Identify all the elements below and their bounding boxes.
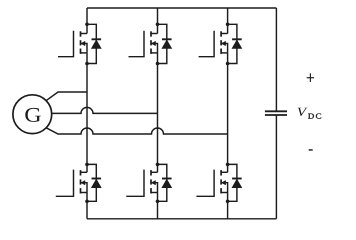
wire: bottom DC bus rail — [87, 218, 276, 220]
junction Q4 source node — [85, 200, 89, 204]
junction Q5 drain node — [156, 163, 160, 167]
wire: D1 branch — [87, 24, 96, 63]
junction Q4 drain node — [85, 163, 89, 167]
diode D4 — [92, 179, 102, 188]
diode D3 — [232, 39, 242, 48]
junction Q2 source node — [156, 62, 160, 66]
transistor Q1 (MOSFET) — [58, 31, 87, 57]
diode D5 — [162, 179, 172, 188]
junction Q6 drain node — [226, 163, 230, 167]
transistor Q3 (MOSFET) — [199, 31, 228, 57]
diode D2 — [162, 39, 172, 48]
wire: leg 1 bottom (Q4 source to bottom rail) — [86, 193, 88, 219]
wire: D4 branch — [87, 164, 96, 201]
junction Q6 source node — [226, 200, 230, 204]
wire: right bus upper segment (top rail to capacitor) — [275, 8, 277, 111]
diode D1 — [92, 39, 102, 48]
junction Q3 drain node — [226, 23, 230, 27]
wire: right bus lower segment (capacitor to bottom rail) — [275, 115, 277, 219]
junction Q1 drain node — [85, 23, 89, 27]
wire: leg 3 midpoint (Q3 source to Q6 drain, phase node) — [227, 53, 229, 172]
generator G (circle symbol) — [13, 95, 52, 134]
transistor Q6 (MOSFET) — [196, 170, 227, 197]
junction Q5 source node — [156, 200, 160, 204]
wire: leg 2 midpoint (Q2 source to Q5 drain, phase node) — [157, 53, 159, 172]
capacitor C1 (DC bus) — [265, 111, 287, 115]
junction Q1 source node — [85, 62, 89, 66]
wire: phase C (generator to leg 3 midpoint, hops over legs 1 and 2) — [46, 128, 227, 134]
wire: leg 2 top (rail to Q2 drain) — [157, 8, 159, 34]
wire: leg 3 bottom (Q6 source to bottom rail) — [227, 193, 229, 219]
wire: leg 1 midpoint (Q1 source to Q4 drain, phase node) — [86, 53, 88, 172]
diode D6 — [232, 179, 242, 188]
wire: D6 branch — [228, 164, 237, 201]
transistor Q4 (MOSFET) — [56, 170, 87, 197]
wire: D3 branch — [228, 24, 237, 63]
label: VDC — [298, 108, 308, 116]
junction Q3 source node — [226, 62, 230, 66]
wire: top DC bus rail — [87, 7, 276, 9]
label: + (positive DC bus) — [307, 73, 314, 82]
transistor Q5 (MOSFET) — [126, 170, 157, 197]
wire: phase A (generator to leg 1 midpoint) — [46, 92, 87, 101]
junction Q2 drain node — [156, 23, 160, 27]
transistor Q2 (MOSFET) — [129, 31, 158, 57]
wire: leg 2 bottom (Q5 source to bottom rail) — [157, 193, 159, 219]
wire: leg 1 top (rail to Q1 drain) — [86, 8, 88, 34]
label: - (negative DC bus) — [309, 149, 313, 151]
wire: phase B (generator to leg 2 midpoint, hop over leg 1) — [52, 107, 158, 113]
wire: D2 branch — [158, 24, 167, 63]
wire: D5 branch — [158, 164, 167, 201]
generator label G — [25, 108, 41, 122]
wire: leg 3 top (rail to Q3 drain) — [227, 8, 229, 34]
